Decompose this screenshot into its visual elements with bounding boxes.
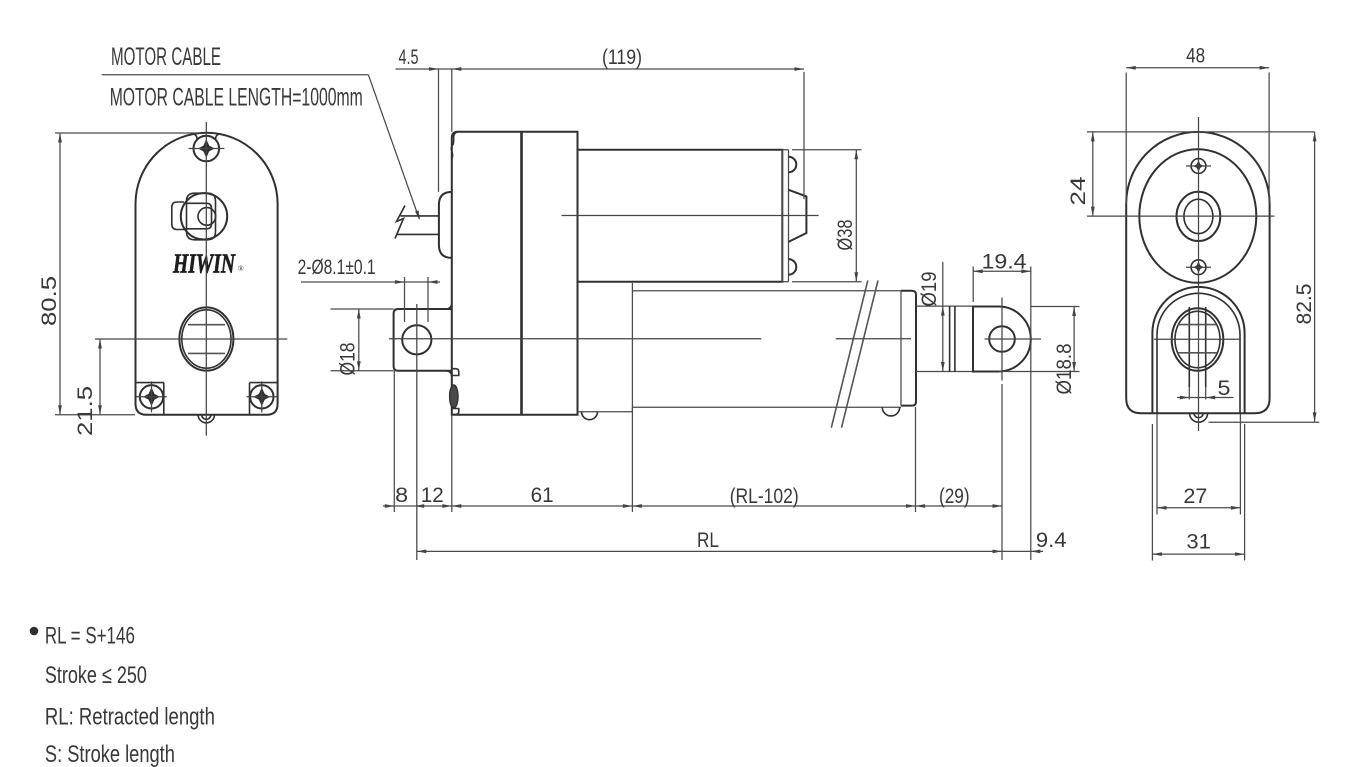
- svg-text:61: 61: [531, 483, 554, 507]
- svg-text:31: 31: [1186, 530, 1211, 554]
- svg-text:Ø19: Ø19: [917, 272, 941, 307]
- svg-text:4.5: 4.5: [399, 45, 419, 69]
- svg-text:(119): (119): [602, 45, 642, 69]
- svg-text:Stroke ≤ 250: Stroke ≤ 250: [45, 662, 147, 689]
- svg-text:RL = S+146: RL = S+146: [45, 623, 135, 650]
- svg-text:48: 48: [1186, 43, 1205, 67]
- svg-text:MOTOR CABLE LENGTH=1000mm: MOTOR CABLE LENGTH=1000mm: [110, 83, 363, 111]
- svg-text:82.5: 82.5: [1292, 283, 1316, 324]
- svg-text:S: Stroke length: S: Stroke length: [45, 741, 175, 767]
- svg-text:5: 5: [1218, 376, 1231, 400]
- svg-text:27: 27: [1183, 484, 1207, 508]
- svg-text:2-Ø8.1±0.1: 2-Ø8.1±0.1: [298, 255, 376, 279]
- svg-text:19.4: 19.4: [982, 250, 1027, 274]
- svg-text:MOTOR CABLE: MOTOR CABLE: [111, 43, 221, 71]
- svg-text:RL: Retracted length: RL: Retracted length: [45, 704, 215, 731]
- svg-text:Ø18: Ø18: [336, 342, 360, 375]
- svg-text:RL: RL: [697, 528, 719, 552]
- svg-text:9.4: 9.4: [1036, 528, 1067, 552]
- svg-text:8: 8: [395, 483, 408, 507]
- svg-text:24: 24: [1066, 176, 1090, 205]
- svg-text:Ø38: Ø38: [833, 219, 857, 250]
- svg-text:HIWIN: HIWIN: [172, 249, 236, 279]
- svg-text:12: 12: [421, 483, 444, 507]
- svg-text:®: ®: [238, 264, 244, 273]
- svg-text:(29): (29): [939, 484, 970, 508]
- svg-text:Ø18.8: Ø18.8: [1052, 343, 1076, 394]
- svg-text:(RL-102): (RL-102): [730, 484, 799, 508]
- svg-text:21.5: 21.5: [73, 386, 97, 436]
- svg-text:80.5: 80.5: [37, 276, 61, 326]
